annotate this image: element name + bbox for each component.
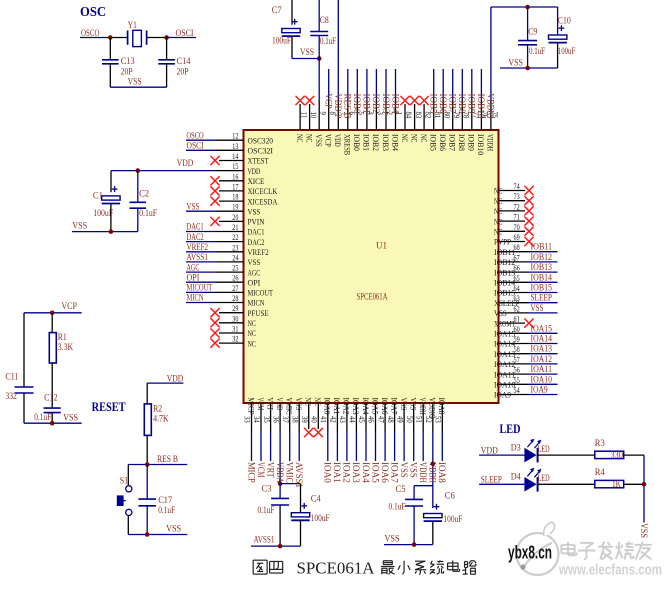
pin number 36 [271, 416, 281, 423]
caption figure 4 SPCE061A minimal system [253, 558, 476, 577]
svg-text:MICP: MICP [246, 462, 256, 483]
svg-text:NC: NC [313, 398, 323, 407]
pin number 13 [232, 141, 238, 151]
wire U1 pin 53 net IOA8 [441, 403, 443, 461]
wire C10 top lead [557, 7, 559, 35]
wire C8 bottom lead to pin9 [318, 36, 320, 59]
label C14 [177, 56, 191, 66]
wire SLEEP to D4 [479, 483, 524, 485]
net label DAC2 [187, 232, 204, 242]
svg-text:XICE: XICE [248, 176, 265, 186]
svg-text:MICOUT: MICOUT [248, 288, 274, 298]
wire U1 pin 65 net IOB14 [499, 281, 558, 283]
svg-text:100uF: 100uF [558, 46, 576, 56]
pin number 32 [232, 334, 238, 344]
pin number 81 [433, 112, 443, 119]
pin name XTEST [248, 156, 270, 166]
pin name NC [313, 398, 323, 407]
net label IOB7 [448, 94, 458, 114]
pin number 59 [514, 334, 520, 344]
svg-text:30: 30 [232, 313, 238, 323]
svg-text:VSS: VSS [314, 134, 324, 147]
net label VMIC [285, 462, 295, 483]
capacitor C5 [405, 499, 423, 506]
wire U1 pin 61 stub [499, 322, 526, 324]
svg-text:VREF2: VREF2 [187, 242, 209, 252]
wire U1 pin 80 net IOB6 [442, 69, 444, 130]
wire VSS rail OSC [110, 86, 166, 88]
pin number 35 [262, 416, 272, 423]
watermark url [558, 562, 662, 579]
pin name NC [248, 328, 257, 338]
svg-text:IOB2: IOB2 [371, 134, 381, 151]
pin number 52 [424, 416, 434, 423]
svg-text:C17: C17 [158, 495, 172, 505]
wire LED VSS vertical [643, 455, 645, 522]
node junction C3-AVSS1 [278, 544, 283, 549]
svg-text:VCM: VCM [256, 398, 266, 411]
net label IOB6 [438, 94, 448, 114]
svg-text:VCP: VCP [61, 301, 77, 311]
label SPCE061A [357, 292, 388, 302]
svg-text:25: 25 [232, 263, 238, 273]
pin number 60 [514, 324, 520, 334]
no-connect X pin 10 [305, 96, 314, 105]
no-connect X pin 14 [210, 156, 219, 165]
pin number 70 [514, 222, 520, 232]
net label VRT [265, 462, 275, 478]
wire C1 top lead [110, 171, 112, 193]
wire U1 pin 26 net OPI [186, 281, 244, 283]
pin number 31 [232, 324, 238, 334]
no-connect X pin 11 [296, 96, 305, 105]
pin number 76 [481, 112, 491, 119]
svg-text:www.elecfans.com: www.elecfans.com [558, 562, 662, 579]
pin number 43 [338, 416, 348, 423]
section label RESET [92, 399, 126, 414]
no-connect X pin 84 [400, 96, 409, 105]
pin name VDDH [418, 398, 428, 415]
wire U1 pin 18 stub [219, 200, 244, 202]
pin name PVIN [248, 217, 265, 227]
svg-text:VCP: VCP [324, 134, 334, 147]
pin name XICE [248, 176, 265, 186]
wire C3 bottom lead [279, 505, 281, 546]
net label MICN [187, 293, 205, 303]
pin name IOB6 [438, 134, 448, 151]
wire R3 to VSS corner [624, 454, 644, 456]
value 100uF [443, 514, 462, 524]
wire U1 pin 81 net IOB5 [433, 69, 435, 130]
pin name MICP [246, 398, 256, 415]
svg-text:83: 83 [414, 112, 424, 119]
net label RES_B [157, 454, 178, 464]
wire S1 bottom lead [127, 516, 129, 535]
label C6 [445, 491, 455, 501]
net label IOB10 [476, 94, 486, 120]
svg-text:PVPP: PVPP [494, 237, 511, 247]
net label IOA14 [531, 334, 553, 344]
label C13 [121, 56, 135, 66]
pin number 2 [385, 112, 395, 115]
no-connect X pin 61 [524, 319, 533, 328]
pin number 29 [232, 303, 238, 313]
wire U1 pin 50 net VSS [413, 403, 415, 461]
pin number 8 [328, 112, 338, 115]
svg-text:VSS: VSS [508, 57, 523, 67]
pin number 72 [514, 201, 520, 211]
pin number 56 [514, 365, 520, 375]
power label VSS [166, 524, 181, 534]
wire VDDIO top rail [491, 6, 558, 8]
svg-text:OSCO: OSCO [81, 28, 100, 38]
wire U1 pin 67 net IOB12 [499, 261, 558, 263]
svg-text:XRESB: XRESB [343, 134, 353, 155]
value 100uF [93, 208, 113, 218]
resistor R4 [595, 480, 624, 487]
wire C7 bottom lead [291, 36, 293, 58]
wire Y1 to OSCI node [147, 37, 167, 39]
wire U1 pin 28 net MICN [186, 302, 244, 304]
pin name IOA3 [351, 398, 361, 415]
svg-text:VRT: VRT [265, 462, 275, 478]
no-connect X pin 16 [210, 176, 219, 185]
wire U1 pin 23 net VREF2 [186, 251, 244, 253]
wire U1 pin 59 net IOA14 [499, 343, 558, 345]
value 0.1uF [320, 36, 336, 46]
svg-text:NC: NC [295, 134, 305, 143]
pin number 11 [299, 112, 309, 119]
wire R1 top lead [51, 313, 53, 333]
svg-text:VDDH: VDDH [418, 398, 428, 415]
svg-text:0.1uF: 0.1uF [34, 412, 51, 422]
svg-text:27: 27 [232, 283, 238, 293]
net label IOA1 [332, 462, 342, 483]
net label IOB13 [531, 262, 553, 272]
wire U1 pin 55 net IOA10 [499, 383, 558, 385]
label C3 [262, 484, 272, 494]
svg-text:NC: NC [248, 338, 257, 348]
svg-text:S1: S1 [120, 476, 129, 486]
pin number 78 [462, 112, 472, 119]
capacitor C17 [138, 499, 156, 506]
watermark logo circle [517, 522, 559, 575]
node junction VDDH-C5 [431, 462, 436, 467]
svg-text:DAC2: DAC2 [187, 232, 204, 242]
svg-text:IOB15: IOB15 [494, 288, 515, 298]
net label VSS [399, 462, 409, 478]
svg-text:OSC320: OSC320 [248, 135, 274, 145]
svg-text:VDDH: VDDH [486, 134, 496, 151]
wire U1 pin 76 net IOB10 [480, 69, 482, 130]
pin name NC [400, 134, 410, 143]
value 4.7K [153, 414, 169, 424]
svg-text:15: 15 [232, 161, 238, 171]
wire U1 pin 2 net IOB3 [385, 69, 387, 130]
pin name DAC2 [248, 237, 265, 247]
svg-text:62: 62 [514, 303, 520, 313]
net label IOA11 [531, 364, 553, 374]
svg-text:26: 26 [232, 273, 238, 283]
wire U1 pin 40 stub [317, 403, 319, 429]
wire S1 top lead [127, 465, 129, 486]
wire C17 bottom lead [146, 506, 148, 535]
wire VDD rail RESET [147, 382, 183, 384]
wire VSS rail bottom [384, 544, 433, 546]
svg-text:IOA15: IOA15 [494, 329, 515, 339]
resistor R3 [595, 451, 624, 458]
wire U1 pin 27 net MICOUT [186, 291, 244, 293]
pin number 51 [414, 416, 424, 423]
capacitor C9 [518, 41, 537, 45]
net label IOA12 [531, 354, 553, 364]
net label IOB1 [362, 94, 372, 114]
no-connect X pin 74 [524, 186, 533, 195]
svg-text:IOB12: IOB12 [531, 252, 553, 262]
power label AVSS1 [254, 535, 275, 545]
svg-text:IOA6: IOA6 [380, 398, 390, 415]
wire U1 pin 29 stub [219, 312, 244, 314]
svg-text:47: 47 [376, 416, 386, 423]
pin name VSS [314, 134, 324, 147]
pin name IOA11 [494, 369, 515, 379]
pin name DAC1 [248, 227, 265, 237]
wire U1 pin 57 net IOA12 [499, 363, 558, 365]
pin number 57 [514, 354, 520, 364]
net label SLEEP [531, 293, 553, 303]
svg-text:IOB15: IOB15 [531, 283, 553, 293]
wire C12 bottom lead [51, 413, 53, 424]
svg-text:IOA4: IOA4 [361, 462, 371, 483]
pin name VSS [248, 257, 261, 267]
net label VDDH [418, 462, 428, 483]
resistor R2 [144, 404, 151, 436]
wire U1 pin 48 net IOA7 [394, 403, 396, 461]
net label IOB11 [531, 242, 553, 252]
pin name IOA10 [494, 380, 515, 390]
svg-text:IOA8: IOA8 [437, 398, 447, 415]
wire U1 pin 72 stub [499, 210, 526, 212]
svg-text:41: 41 [319, 416, 329, 423]
value 0.1uF [139, 208, 157, 218]
pin number 66 [514, 263, 520, 273]
svg-text:IOB0: IOB0 [352, 134, 362, 151]
pin name NC [494, 186, 503, 196]
wire U1 pin 46 net IOA5 [375, 403, 377, 461]
svg-text:OSCO: OSCO [187, 130, 205, 140]
pin name IOA8 [437, 398, 447, 415]
node junction VDDA-C4 [278, 481, 283, 486]
switch S1 [117, 486, 132, 516]
svg-text:24: 24 [232, 252, 239, 262]
svg-text:12: 12 [232, 131, 238, 141]
pin name OSC320 [248, 135, 274, 145]
wire U1 pin 19 net VSS [186, 210, 244, 212]
svg-text:13: 13 [232, 141, 238, 151]
watermark chinese text [561, 542, 651, 560]
net label VDDA [275, 462, 285, 483]
pin number 22 [232, 232, 238, 242]
pin number 12 [232, 131, 238, 141]
svg-text:MICOUT: MICOUT [187, 283, 213, 293]
power label VSS [508, 57, 523, 67]
svg-text:SLEEP: SLEEP [531, 293, 553, 303]
svg-text:IOA5: IOA5 [370, 398, 380, 415]
pin number 19 [232, 202, 238, 212]
wire U1 pin 14 stub [219, 160, 244, 162]
net label VDDH [428, 462, 438, 483]
node junction OSCI-C14 [164, 35, 169, 40]
no-connect X pin 39 [304, 428, 313, 437]
svg-text:C9: C9 [528, 27, 537, 37]
wire U1 pin 39 stub [308, 403, 310, 429]
svg-text:33: 33 [243, 416, 253, 423]
svg-text:IOA4: IOA4 [361, 398, 371, 416]
svg-text:IOB5: IOB5 [429, 134, 439, 151]
svg-text:OSCI: OSCI [187, 141, 204, 151]
svg-text:IOB3: IOB3 [381, 134, 391, 151]
label D3 [511, 443, 521, 453]
svg-text:VSS: VSS [399, 398, 409, 411]
svg-text:28: 28 [232, 293, 238, 303]
wire C7 top lead [291, 0, 293, 25]
net label IOB15 [531, 283, 553, 293]
svg-text:51: 51 [414, 416, 424, 423]
value 100uF [311, 513, 330, 523]
wire C9 top lead [527, 7, 529, 41]
pin number 58 [514, 344, 520, 354]
capacitor C1 [102, 186, 120, 203]
label LED D3 [538, 444, 550, 454]
svg-text:46: 46 [367, 416, 377, 423]
pin number 30 [232, 313, 238, 323]
svg-text:AGC: AGC [187, 262, 200, 272]
wire U1 pin 69 stub [499, 241, 526, 243]
pin name OSC32I [248, 146, 274, 156]
svg-text:VDDH: VDDH [418, 462, 428, 483]
svg-text:IOA13: IOA13 [531, 344, 553, 354]
svg-text:16: 16 [232, 171, 238, 181]
svg-text:IOA10: IOA10 [531, 374, 553, 384]
net label IOA9 [531, 385, 549, 395]
svg-text:VSS: VSS [399, 462, 409, 478]
svg-text:IOA11: IOA11 [494, 369, 515, 379]
svg-text:1: 1 [395, 112, 405, 115]
svg-text:NC: NC [248, 318, 257, 328]
power label VSS [385, 534, 400, 544]
wire C17 top lead [146, 465, 148, 500]
svg-text:44: 44 [348, 416, 358, 423]
svg-text:NC: NC [304, 134, 314, 143]
pin number 64 [514, 283, 521, 293]
wire VSS rail C9C10 [500, 67, 558, 69]
svg-text:OSC: OSC [80, 5, 106, 20]
svg-text:37: 37 [281, 416, 291, 423]
wire U1 pin 1 net IOB4 [395, 69, 397, 130]
label LED D4 [538, 473, 550, 483]
svg-text:IOB2: IOB2 [371, 94, 381, 114]
capacitor C10 [549, 25, 567, 42]
pin name XROMT [494, 318, 516, 328]
svg-text:22: 22 [232, 232, 238, 242]
svg-text:VDD: VDD [275, 398, 285, 411]
wire U1 pin 62 net VSS [499, 312, 558, 314]
pin number 83 [414, 112, 424, 119]
svg-text:NC: NC [248, 328, 257, 338]
pin name VSS [494, 308, 507, 318]
wire U1 pin 36 net VDDA down to C3 [279, 403, 281, 484]
svg-text:19: 19 [232, 202, 238, 212]
svg-text:IOA1: IOA1 [332, 398, 342, 415]
pin name IOA12 [494, 359, 515, 369]
pin name NC [304, 398, 314, 407]
wire C2 bottom lead [137, 208, 139, 231]
pin number 48 [386, 416, 396, 423]
wire U1 pin 49 net VSS [403, 403, 405, 461]
svg-text:C2: C2 [139, 189, 149, 199]
svg-text:34: 34 [252, 416, 262, 423]
svg-text:IOA2: IOA2 [342, 462, 352, 483]
svg-text:NC: NC [409, 134, 419, 143]
svg-text:50: 50 [405, 416, 415, 423]
svg-text:AVSS1: AVSS1 [254, 535, 275, 545]
watermark ybx8.cn [508, 543, 552, 563]
pin name VRT [265, 398, 275, 411]
svg-text:VDD: VDD [333, 134, 343, 147]
wire U1 pin 71 stub [499, 220, 526, 222]
node junction C9-VSS [525, 66, 530, 71]
svg-text:R4: R4 [595, 467, 605, 477]
label S1 [120, 476, 129, 486]
svg-text:VSS: VSS [639, 523, 649, 538]
svg-text:RES B: RES B [157, 454, 178, 464]
svg-text:C5: C5 [396, 484, 406, 494]
net label IOB0 [352, 94, 362, 114]
wire U1 pin 68 net IOB11 [499, 251, 558, 253]
svg-text:84: 84 [404, 112, 414, 119]
svg-text:VSS: VSS [248, 257, 261, 267]
node junction rail-C9 [525, 5, 530, 10]
wire VSS rail VCP block [24, 422, 82, 424]
wire U1 pin 10 stub [309, 104, 311, 130]
svg-text:XICESDA: XICESDA [248, 196, 278, 206]
value 20P [121, 67, 133, 77]
pin name XICECLK [248, 186, 278, 196]
label R3 [595, 438, 605, 448]
wire U1 pin 8 net VCP [328, 69, 330, 130]
label C11 [5, 372, 18, 382]
pin name IOB9 [467, 134, 477, 151]
wire U1 pin 5 net IOB0 [356, 69, 358, 130]
power label VSS [300, 47, 314, 57]
label U1 [376, 241, 387, 251]
pin number 18 [232, 192, 238, 202]
svg-text:IOA9: IOA9 [531, 385, 549, 395]
net label IOB8 [457, 94, 467, 114]
pin name NC [494, 227, 503, 237]
no-connect X pin 18 [210, 197, 219, 206]
pin name NC [494, 206, 503, 216]
svg-text:SPCE061A: SPCE061A [297, 558, 376, 577]
pin name VCM [256, 398, 266, 411]
pin number 71 [514, 212, 520, 222]
wire U1 pin 58 net IOA13 [499, 353, 558, 355]
pin name IOA1 [332, 398, 342, 415]
svg-text:LED: LED [538, 444, 550, 454]
svg-text:IOB4: IOB4 [390, 134, 400, 152]
wire U1 pin 25 net AGC [186, 271, 244, 273]
svg-text:PFUSE: PFUSE [248, 308, 269, 318]
